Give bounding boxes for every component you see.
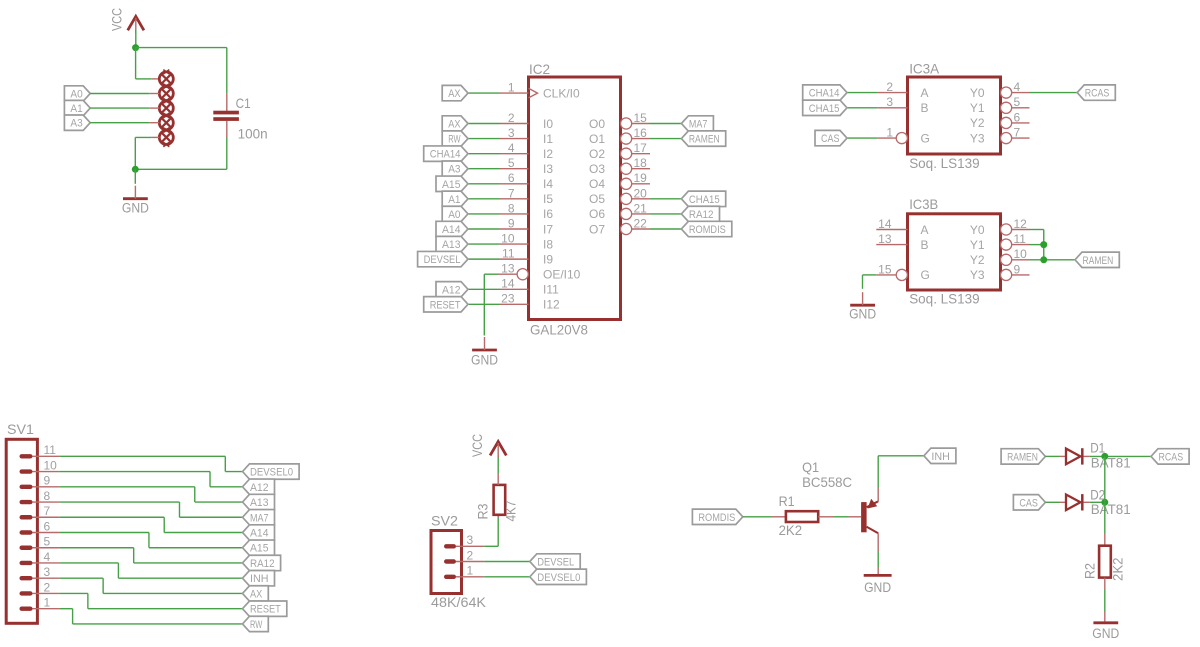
svg-text:5: 5 bbox=[1014, 95, 1021, 109]
svg-text:19: 19 bbox=[634, 171, 648, 185]
svg-text:1: 1 bbox=[467, 564, 474, 578]
svg-text:15: 15 bbox=[634, 111, 648, 125]
svg-text:I2: I2 bbox=[543, 147, 553, 161]
svg-text:R1: R1 bbox=[779, 493, 795, 509]
svg-text:CHA15: CHA15 bbox=[809, 103, 840, 115]
svg-text:O1: O1 bbox=[589, 132, 605, 146]
svg-text:I9: I9 bbox=[543, 252, 553, 266]
svg-text:RA12: RA12 bbox=[250, 558, 275, 570]
svg-text:2: 2 bbox=[886, 80, 893, 94]
svg-text:GND: GND bbox=[849, 307, 876, 322]
svg-text:I5: I5 bbox=[543, 192, 553, 206]
svg-text:20: 20 bbox=[634, 186, 648, 200]
svg-text:CHA14: CHA14 bbox=[430, 149, 461, 161]
svg-text:GND: GND bbox=[471, 353, 498, 368]
svg-text:BC558C: BC558C bbox=[802, 474, 852, 490]
svg-text:I7: I7 bbox=[543, 222, 553, 236]
svg-text:BAT81: BAT81 bbox=[1091, 454, 1131, 470]
svg-text:Y2: Y2 bbox=[970, 253, 985, 267]
svg-text:O3: O3 bbox=[589, 162, 605, 176]
svg-text:18: 18 bbox=[634, 156, 648, 170]
svg-text:6: 6 bbox=[508, 171, 515, 185]
svg-text:O5: O5 bbox=[589, 192, 605, 206]
svg-text:VCC: VCC bbox=[110, 8, 125, 31]
svg-text:16: 16 bbox=[634, 126, 648, 140]
svg-text:CAS: CAS bbox=[821, 133, 840, 145]
svg-text:RCAS: RCAS bbox=[1085, 88, 1110, 100]
svg-text:GND: GND bbox=[1092, 626, 1119, 641]
svg-text:9: 9 bbox=[44, 474, 51, 488]
svg-text:1: 1 bbox=[44, 596, 51, 610]
svg-text:I3: I3 bbox=[543, 162, 553, 176]
svg-text:3: 3 bbox=[508, 126, 515, 140]
svg-text:DEVSEL: DEVSEL bbox=[537, 557, 574, 569]
svg-text:CLK/I0: CLK/I0 bbox=[543, 86, 580, 100]
svg-text:VCC: VCC bbox=[470, 434, 485, 457]
svg-text:DEVSEL0: DEVSEL0 bbox=[250, 467, 293, 479]
svg-text:IC3A: IC3A bbox=[909, 61, 940, 77]
svg-text:AX: AX bbox=[448, 88, 461, 100]
svg-text:1: 1 bbox=[886, 126, 893, 140]
svg-text:100n: 100n bbox=[238, 126, 268, 142]
svg-text:3: 3 bbox=[44, 565, 51, 579]
svg-text:RESET: RESET bbox=[430, 299, 461, 311]
svg-text:7: 7 bbox=[44, 504, 51, 518]
svg-text:CHA15: CHA15 bbox=[689, 194, 720, 206]
svg-text:I0: I0 bbox=[543, 117, 553, 131]
svg-text:G: G bbox=[921, 131, 930, 145]
svg-text:RAMEN: RAMEN bbox=[689, 134, 720, 146]
svg-text:3: 3 bbox=[886, 95, 893, 109]
svg-text:BAT81: BAT81 bbox=[1091, 501, 1131, 517]
svg-text:6: 6 bbox=[1014, 110, 1021, 124]
svg-text:3: 3 bbox=[467, 533, 474, 547]
svg-text:11: 11 bbox=[1014, 232, 1027, 246]
svg-text:A3: A3 bbox=[448, 164, 460, 176]
svg-text:RAMEN: RAMEN bbox=[1007, 451, 1038, 463]
svg-text:8: 8 bbox=[44, 489, 51, 503]
svg-text:48K/64K: 48K/64K bbox=[431, 594, 487, 610]
svg-text:14: 14 bbox=[878, 217, 892, 231]
svg-text:2K2: 2K2 bbox=[779, 522, 803, 538]
svg-text:DEVSEL0: DEVSEL0 bbox=[537, 572, 580, 584]
svg-text:4K7: 4K7 bbox=[503, 500, 519, 521]
svg-text:Y1: Y1 bbox=[970, 101, 985, 115]
svg-text:A3: A3 bbox=[70, 118, 82, 130]
svg-text:C1: C1 bbox=[236, 95, 251, 111]
svg-text:4: 4 bbox=[44, 550, 51, 564]
svg-text:R2: R2 bbox=[1082, 563, 1098, 579]
svg-text:O7: O7 bbox=[589, 222, 605, 236]
svg-text:Y0: Y0 bbox=[970, 86, 985, 100]
svg-text:MA7: MA7 bbox=[250, 512, 269, 524]
svg-text:A0: A0 bbox=[448, 209, 460, 221]
svg-text:GND: GND bbox=[864, 580, 891, 595]
svg-text:7: 7 bbox=[508, 186, 515, 200]
svg-text:O6: O6 bbox=[589, 207, 605, 221]
svg-text:A12: A12 bbox=[250, 482, 269, 494]
svg-text:Y3: Y3 bbox=[970, 131, 985, 145]
svg-text:B: B bbox=[921, 101, 929, 115]
svg-text:Y2: Y2 bbox=[970, 116, 985, 130]
svg-text:I4: I4 bbox=[543, 177, 553, 191]
svg-text:RCAS: RCAS bbox=[1159, 451, 1184, 463]
svg-text:A: A bbox=[921, 223, 929, 237]
svg-text:B: B bbox=[921, 238, 929, 252]
svg-text:Soq. LS139: Soq. LS139 bbox=[909, 155, 980, 171]
svg-text:MA7: MA7 bbox=[689, 119, 708, 131]
svg-text:Y0: Y0 bbox=[970, 223, 985, 237]
svg-text:13: 13 bbox=[878, 232, 892, 246]
svg-text:15: 15 bbox=[878, 262, 892, 276]
svg-text:5: 5 bbox=[44, 535, 51, 549]
svg-text:AX: AX bbox=[250, 588, 263, 600]
svg-text:AX: AX bbox=[448, 119, 461, 131]
svg-text:A1: A1 bbox=[70, 103, 82, 115]
svg-text:A13: A13 bbox=[442, 239, 461, 251]
svg-text:9: 9 bbox=[1014, 262, 1021, 276]
svg-text:9: 9 bbox=[508, 216, 515, 230]
svg-text:21: 21 bbox=[634, 201, 648, 215]
svg-text:I8: I8 bbox=[543, 237, 553, 251]
svg-text:I11: I11 bbox=[543, 283, 559, 297]
svg-text:RW: RW bbox=[448, 134, 461, 146]
svg-text:A13: A13 bbox=[250, 497, 269, 509]
svg-text:IC3B: IC3B bbox=[909, 196, 938, 212]
svg-text:10: 10 bbox=[44, 458, 58, 472]
svg-text:O0: O0 bbox=[589, 117, 605, 131]
svg-text:11: 11 bbox=[44, 443, 57, 457]
svg-text:A15: A15 bbox=[442, 179, 461, 191]
svg-text:OE/I10: OE/I10 bbox=[543, 268, 581, 282]
svg-text:R3: R3 bbox=[475, 503, 491, 519]
svg-text:2: 2 bbox=[44, 580, 51, 594]
svg-text:A12: A12 bbox=[442, 284, 461, 296]
svg-text:RESET: RESET bbox=[250, 604, 281, 616]
svg-text:A: A bbox=[921, 86, 929, 100]
svg-text:4: 4 bbox=[508, 141, 515, 155]
svg-text:O4: O4 bbox=[589, 177, 605, 191]
svg-text:A14: A14 bbox=[250, 528, 269, 540]
svg-text:Y3: Y3 bbox=[970, 268, 985, 282]
svg-text:2K2: 2K2 bbox=[1110, 557, 1126, 581]
svg-text:12: 12 bbox=[1014, 217, 1028, 231]
svg-text:17: 17 bbox=[634, 141, 648, 155]
svg-text:I1: I1 bbox=[543, 132, 553, 146]
svg-text:A14: A14 bbox=[442, 224, 461, 236]
svg-text:A15: A15 bbox=[250, 543, 269, 555]
svg-text:I12: I12 bbox=[543, 298, 560, 312]
svg-text:I6: I6 bbox=[543, 207, 553, 221]
svg-text:RA12: RA12 bbox=[689, 209, 714, 221]
svg-text:SV2: SV2 bbox=[431, 513, 458, 529]
svg-text:G: G bbox=[921, 268, 930, 282]
svg-text:7: 7 bbox=[1014, 126, 1021, 140]
svg-text:Y1: Y1 bbox=[970, 238, 985, 252]
svg-text:Soq. LS139: Soq. LS139 bbox=[909, 291, 980, 307]
svg-text:A0: A0 bbox=[70, 89, 82, 101]
svg-text:4: 4 bbox=[1014, 80, 1021, 94]
svg-text:IC2: IC2 bbox=[529, 61, 550, 77]
svg-text:Q1: Q1 bbox=[802, 459, 819, 475]
svg-text:SV1: SV1 bbox=[7, 421, 34, 437]
svg-text:D1: D1 bbox=[1090, 440, 1105, 456]
svg-text:A1: A1 bbox=[448, 194, 460, 206]
svg-text:GAL20V8: GAL20V8 bbox=[530, 322, 588, 338]
svg-text:O2: O2 bbox=[589, 147, 605, 161]
svg-text:GND: GND bbox=[122, 201, 149, 216]
svg-text:ROMDIS: ROMDIS bbox=[698, 512, 735, 524]
svg-text:5: 5 bbox=[508, 156, 515, 170]
svg-text:6: 6 bbox=[44, 519, 51, 533]
svg-text:INH: INH bbox=[250, 573, 269, 585]
svg-text:10: 10 bbox=[1014, 247, 1028, 261]
svg-text:RAMEN: RAMEN bbox=[1083, 255, 1114, 267]
svg-text:22: 22 bbox=[634, 216, 648, 230]
svg-text:ROMDIS: ROMDIS bbox=[689, 224, 726, 236]
svg-text:CHA14: CHA14 bbox=[809, 88, 840, 100]
svg-text:INH: INH bbox=[931, 451, 950, 463]
svg-text:RW: RW bbox=[250, 619, 263, 631]
svg-text:2: 2 bbox=[467, 548, 474, 562]
svg-text:DEVSEL: DEVSEL bbox=[424, 254, 461, 266]
svg-text:CAS: CAS bbox=[1019, 497, 1038, 509]
